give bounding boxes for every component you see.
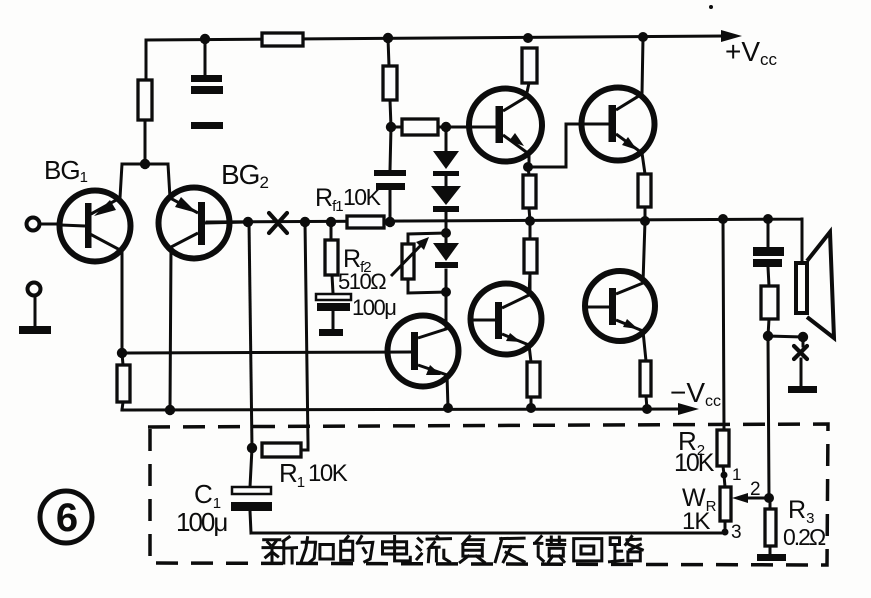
svg-text:1: 1 bbox=[732, 465, 741, 484]
svg-text:3: 3 bbox=[731, 522, 742, 543]
svg-text:BG1: BG1 bbox=[44, 155, 88, 186]
svg-text:10K: 10K bbox=[343, 184, 382, 210]
svg-text:10K: 10K bbox=[674, 449, 715, 477]
svg-text:10K: 10K bbox=[308, 460, 348, 487]
svg-text:BG2: BG2 bbox=[221, 159, 268, 192]
svg-text:1K: 1K bbox=[682, 508, 710, 535]
svg-text:510Ω: 510Ω bbox=[338, 269, 386, 294]
svg-text:−Vcc: −Vcc bbox=[670, 377, 721, 410]
svg-text:Rf1: Rf1 bbox=[315, 184, 343, 215]
svg-text:+Vcc: +Vcc bbox=[725, 36, 778, 69]
svg-text:2: 2 bbox=[750, 479, 761, 500]
svg-text:100μ: 100μ bbox=[352, 295, 396, 320]
svg-text:0.2Ω: 0.2Ω bbox=[783, 524, 826, 550]
svg-text:R1: R1 bbox=[279, 458, 305, 491]
svg-text:100μ: 100μ bbox=[176, 507, 227, 537]
svg-text:6: 6 bbox=[56, 496, 78, 540]
svg-text:R3: R3 bbox=[788, 496, 814, 527]
